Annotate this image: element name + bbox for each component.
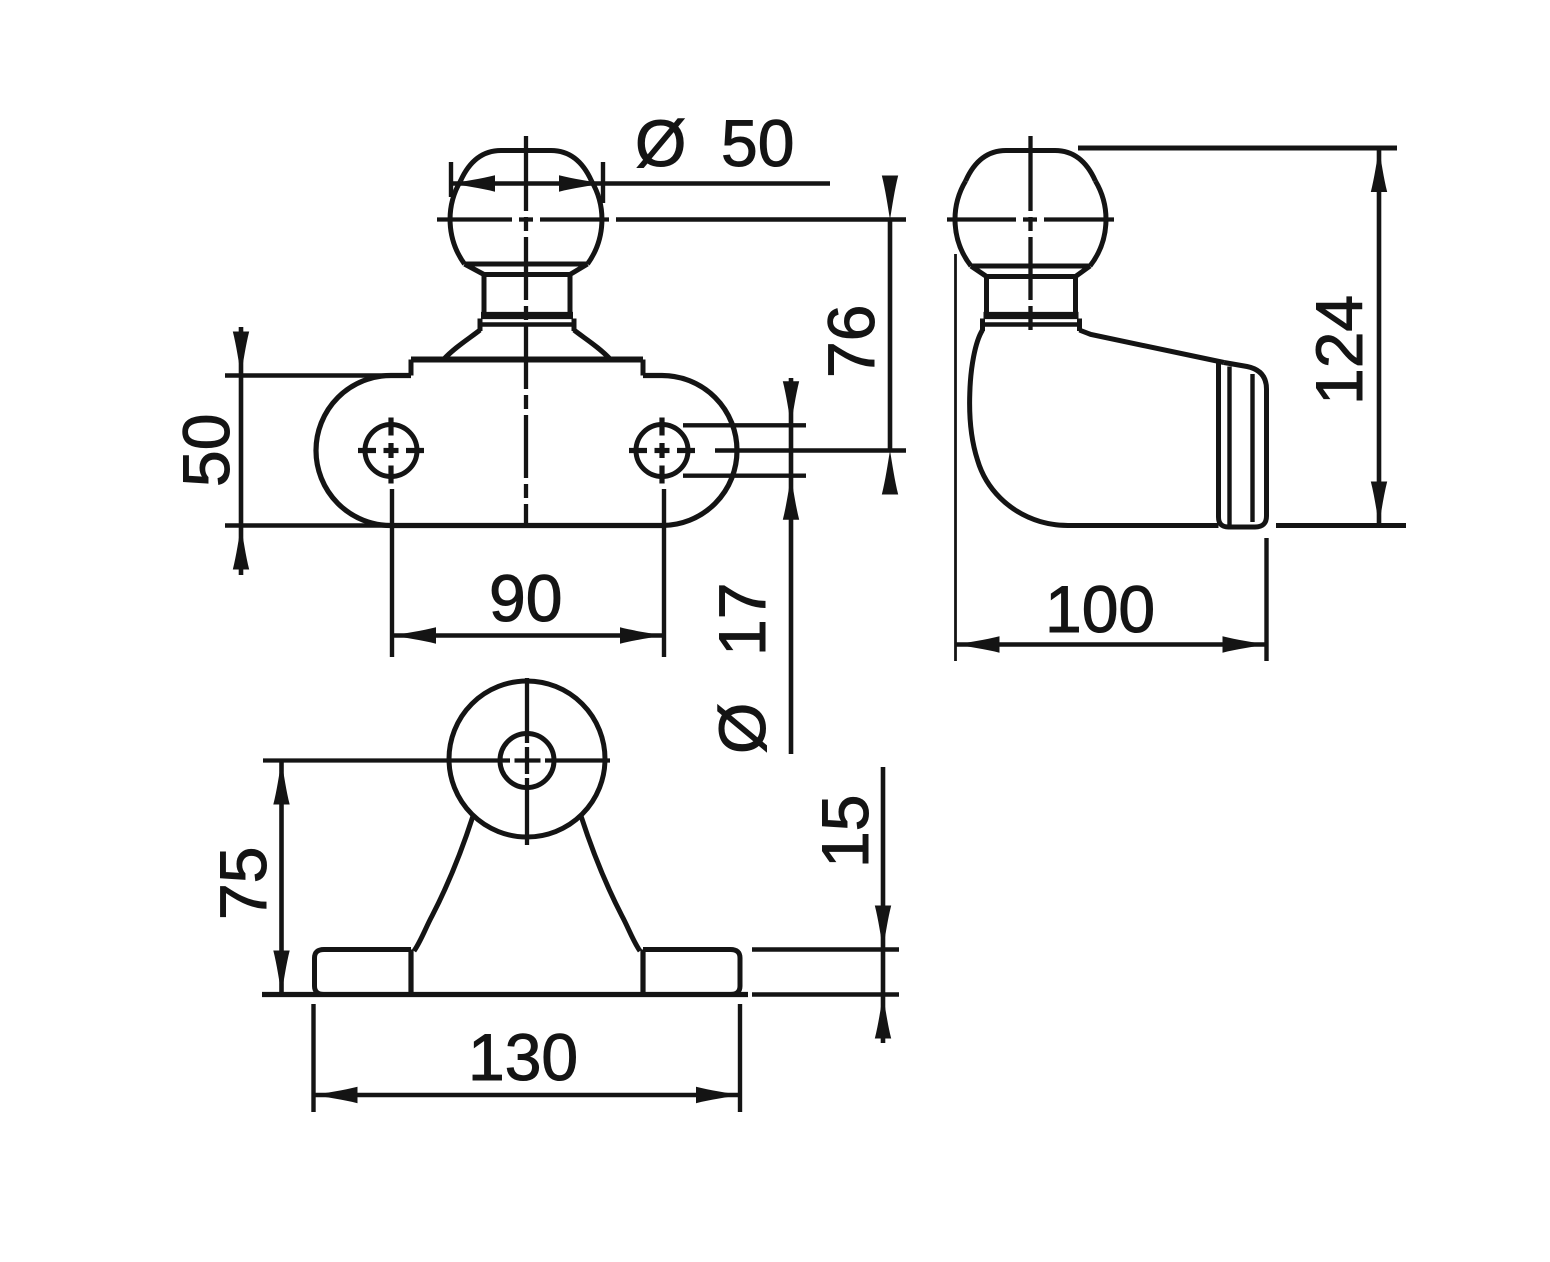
dimension Ø50: right arrow [559, 175, 603, 191]
bottom view: right flange junction line [640, 950, 645, 995]
dimension 50: dimension line [239, 327, 244, 575]
bottom view: left flange [315, 950, 412, 995]
svg-text:76: 76 [814, 305, 888, 378]
side view: plate inner edge line 2 [1250, 374, 1254, 522]
dimension 76: dimension line [888, 220, 893, 451]
dimension 130: extension lines [314, 1004, 741, 1112]
front view: ball-neck cone [465, 264, 588, 275]
side view: ball-neck cone [971, 266, 1090, 277]
svg-text:50: 50 [721, 106, 794, 180]
side view: body top slope [1080, 330, 1225, 363]
dimension Ø17: bottom arrow [783, 476, 799, 520]
side view: collar [983, 316, 1080, 332]
front view: trumpet flare left [444, 330, 481, 360]
dimension 90: dimension line [392, 633, 664, 638]
dimension 76: reference line from ball center [616, 217, 906, 221]
svg-text:90: 90 [489, 561, 562, 635]
front view: body stadium outline [316, 376, 737, 526]
bottom view: horizontal centerline / 75 reference [263, 758, 610, 762]
dimension 130: right arrow [696, 1087, 740, 1103]
svg-text:124: 124 [1302, 295, 1376, 405]
dimension 15: extension lines [752, 950, 899, 995]
front view: neck cylinder [484, 275, 570, 314]
dimension 100: dimension line [956, 642, 1267, 647]
svg-text:17: 17 [705, 583, 779, 656]
dimension 100: right arrow [1223, 636, 1267, 652]
dimension 75: top arrow [273, 761, 289, 805]
dimension 15: dimension line [881, 767, 886, 1043]
front view: right hole crosshair [629, 418, 695, 484]
dimension Ø17: dimension line [789, 378, 794, 754]
dimension 124: dimension line [1377, 148, 1382, 526]
dimension Ø50: dimension line [451, 181, 830, 186]
dimension 130: dimension line [314, 1093, 741, 1098]
front view: left hole circle [365, 425, 417, 477]
dimension 50: top arrow [233, 332, 249, 376]
front view: boss step right [641, 360, 646, 376]
side view: body outline left and bottom [970, 330, 1219, 526]
dimension Ø17: top arrow [783, 381, 799, 425]
side view: neck cylinder [987, 277, 1076, 314]
dimension 15: top arrow [875, 906, 891, 950]
front view: trumpet flare right [574, 330, 611, 360]
bottom view: right flange [643, 950, 740, 995]
dimension Ø50: left arrow [451, 175, 495, 191]
side view: mounting plate outline [1219, 362, 1267, 527]
side view: ball horizontal centerline [947, 217, 1114, 221]
dimension 100: left arrow [956, 636, 1000, 652]
bottom view: trumpet right edge [581, 816, 640, 951]
front view: tow ball outline [450, 151, 602, 265]
svg-text:100: 100 [1045, 572, 1155, 646]
side view: vertical centerline [1028, 136, 1032, 330]
dimension 75: dimension line [279, 761, 284, 995]
svg-text:75: 75 [206, 847, 280, 920]
bottom view: hole circle [500, 734, 554, 788]
side view: tow ball outline [955, 151, 1106, 267]
svg-text:Ø: Ø [705, 703, 779, 754]
svg-text:Ø: Ø [635, 106, 686, 180]
dimension 124: top extension line [1078, 146, 1397, 151]
side view: plate inner edge line 1 [1227, 367, 1231, 527]
dimension 124: bottom extension line [1276, 523, 1406, 528]
dimension Ø50: extension lines [451, 162, 603, 203]
dimension 50: bottom arrow [233, 526, 249, 570]
dimension 76: top arrow [882, 176, 898, 220]
dimension 124: bottom arrow [1371, 482, 1387, 526]
front view: boss top line [411, 357, 643, 363]
bottom view: trumpet left edge [414, 816, 473, 951]
dimension 50: extension lines [225, 376, 391, 526]
bottom view: vertical centerline [525, 678, 529, 845]
dimension 130: left arrow [314, 1087, 358, 1103]
front view: left hole crosshair [358, 418, 424, 484]
svg-text:130: 130 [468, 1020, 578, 1094]
dimension 15: bottom arrow [875, 995, 891, 1039]
svg-text:50: 50 [169, 414, 243, 487]
dimension 124: top arrow [1371, 148, 1387, 192]
dimension 76: reference line from hole center [715, 448, 906, 452]
front view: boss step left [409, 360, 414, 376]
dimension 100: right extension line [1264, 538, 1268, 661]
dimension 100: left extension line [954, 254, 957, 661]
dimension 90: right arrow [620, 627, 664, 643]
dimension 90: extension lines [392, 489, 664, 657]
front view: right hole circle [636, 425, 688, 477]
front view: vertical centerline [524, 136, 528, 526]
dimension Ø17: extension lines [683, 425, 806, 475]
bottom view: left flange junction line [408, 950, 413, 995]
front view: ball horizontal centerline [437, 217, 609, 221]
bottom view: base bottom line [262, 992, 748, 997]
dimension 76: bottom arrow [882, 451, 898, 495]
dimension 90: left arrow [392, 627, 436, 643]
bottom view: boss circle [449, 681, 605, 837]
svg-text:15: 15 [808, 795, 882, 868]
dimension 75: bottom arrow [273, 951, 289, 995]
front view: collar [480, 316, 574, 332]
